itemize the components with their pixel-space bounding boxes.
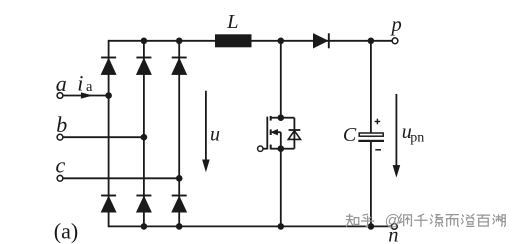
svg-text:i: i [77,71,83,96]
svg-text:@: @ [385,213,401,230]
svg-text:u: u [210,123,220,145]
svg-text:a: a [56,71,67,96]
svg-text:(a): (a) [54,219,78,244]
svg-text:L: L [226,11,238,33]
svg-text:a: a [86,79,93,95]
svg-text:p: p [389,14,401,36]
svg-text:b: b [56,112,67,137]
svg-text:pn: pn [410,130,424,145]
svg-text:c: c [56,153,66,178]
svg-text:C: C [343,124,357,146]
